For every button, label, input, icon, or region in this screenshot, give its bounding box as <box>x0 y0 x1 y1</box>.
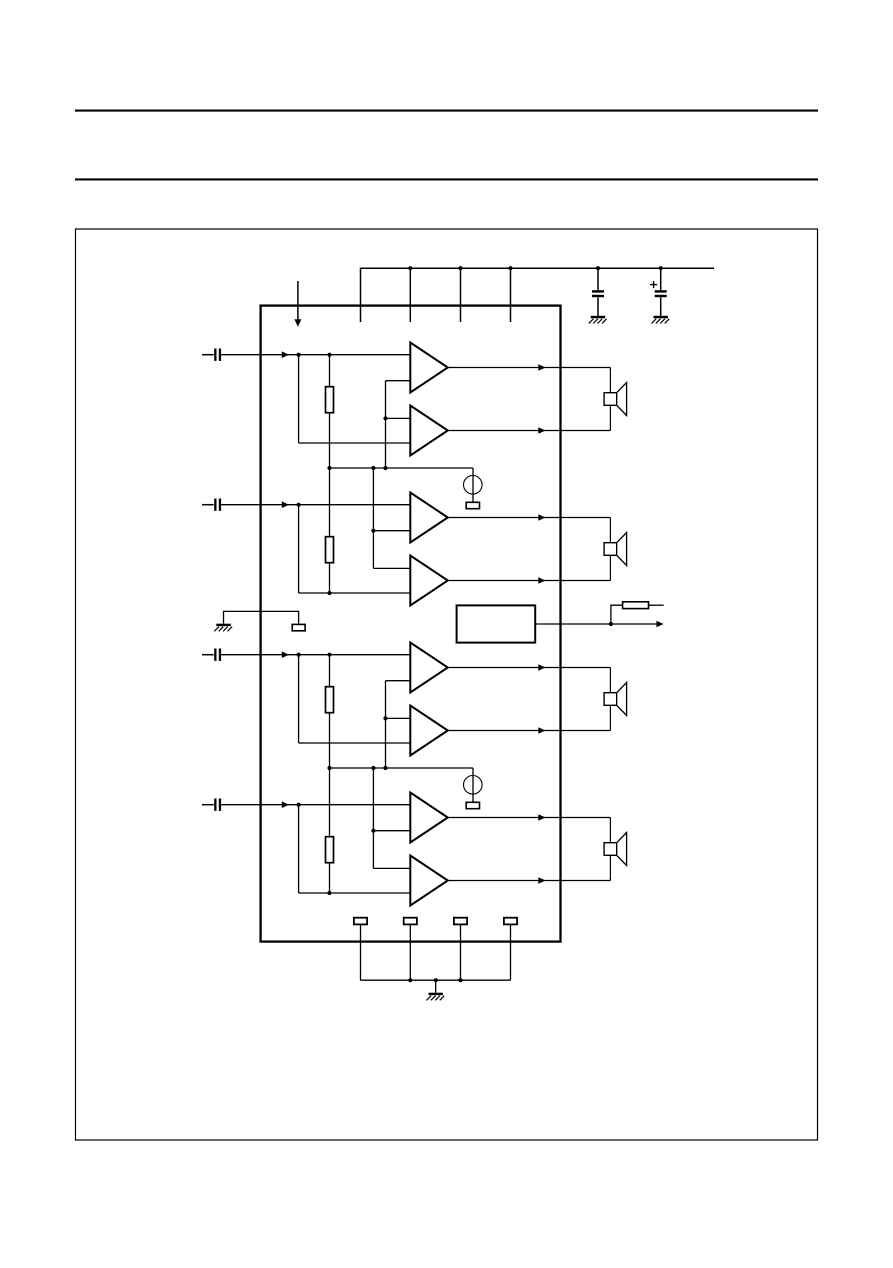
wire through resistor R3 <box>329 655 331 768</box>
op-amp A3 <box>410 493 448 543</box>
wire inverting input op4 <box>299 592 411 594</box>
arrowhead output op4 <box>538 577 545 584</box>
node interstage ch2 <box>371 529 375 533</box>
wire common reference ch3 <box>330 767 474 769</box>
arrowhead output op3 <box>538 514 545 521</box>
block mode select U1a <box>457 605 536 642</box>
pin pad ground tab 4 <box>504 918 517 925</box>
node interstage ch3 <box>383 716 387 720</box>
wire to reference source ch1 <box>472 468 474 502</box>
speaker LS2 <box>604 533 627 566</box>
arrowhead output op5 <box>538 664 545 671</box>
wire output op3 <box>448 517 611 519</box>
ground below C1 <box>589 316 607 324</box>
speaker LS1 <box>604 383 627 416</box>
op-amp A1 <box>410 343 448 393</box>
wire feedback drop ch4 <box>298 805 300 893</box>
wire ground tab 4 <box>510 924 512 980</box>
arrowhead input IN2 <box>282 501 289 508</box>
wire after pull-up resistor <box>649 604 664 606</box>
wire to speaker top ch1 <box>609 368 611 393</box>
node supply pin junction <box>508 266 512 270</box>
header rule bottom <box>75 178 818 180</box>
ground below C2 <box>652 316 670 324</box>
op-amp A7 <box>410 793 448 843</box>
op-amp A4 <box>410 556 448 606</box>
resistor R4 <box>326 837 334 863</box>
speaker LS4 <box>604 833 627 866</box>
node input 3 B <box>327 653 331 657</box>
node common ref 1 c <box>383 466 387 470</box>
current source reference ch3 <box>464 776 483 795</box>
wire ground tab 1 <box>360 924 362 980</box>
wire interstage ch3 <box>385 681 387 768</box>
node diagnostic branch <box>609 622 613 626</box>
arrowhead output op8 <box>538 877 545 884</box>
node common ref 1 b <box>371 466 375 470</box>
node interstage ch1 <box>383 416 387 420</box>
node common ref 3 a <box>327 766 331 770</box>
wire inverting input op2 <box>299 442 411 444</box>
wire through resistor R1 <box>329 355 331 468</box>
arrowhead output op2 <box>538 427 545 434</box>
wire to speaker bottom ch1 <box>609 405 611 430</box>
node C1 to rail <box>596 266 600 270</box>
wire output op7 <box>448 817 611 819</box>
capacitor input coupling CIN4 <box>202 799 221 811</box>
op-amp A2 <box>410 406 448 456</box>
node common ref 3 c <box>383 766 387 770</box>
ground signal ground <box>214 624 232 632</box>
wire supply pin <box>460 268 462 322</box>
arrowhead output op6 <box>538 727 545 734</box>
node input 2 A <box>297 503 301 507</box>
node ground bus a <box>408 978 412 982</box>
node common ref 1 a <box>327 466 331 470</box>
wire stub op7 inverting <box>373 830 410 832</box>
pin pad ground tab 3 <box>454 918 467 925</box>
wire input IN1 <box>221 354 410 356</box>
node input 3 A <box>297 653 301 657</box>
node resistor R2 bottom <box>327 591 331 595</box>
node input 4 A <box>297 803 301 807</box>
arrowhead input IN3 <box>282 651 289 658</box>
wire supply pin <box>510 268 512 322</box>
wire ground bus <box>361 979 511 981</box>
resistor R2 <box>326 537 334 563</box>
wire to speaker bottom ch2 <box>609 555 611 580</box>
wire signal ground to pin <box>224 611 299 624</box>
wire diagnostic pull-up branch <box>611 605 623 624</box>
wire to speaker bottom ch3 <box>609 705 611 730</box>
arrowhead input IN4 <box>282 801 289 808</box>
node ground stem <box>434 978 438 982</box>
pin pad ground tab 2 <box>404 918 417 925</box>
capacitor C1 decoupling <box>592 268 604 316</box>
wire feedback drop ch3 <box>298 655 300 743</box>
node input 1 A <box>297 353 301 357</box>
capacitor input coupling CIN2 <box>202 499 221 511</box>
wire supply rail VP <box>361 268 715 322</box>
wire stub op5 inverting <box>386 680 411 682</box>
wire to speaker top ch2 <box>609 518 611 543</box>
wire stub op2 noninverting <box>386 417 411 419</box>
pin pad reference ch3 <box>466 802 479 808</box>
node supply pin junction <box>458 266 462 270</box>
op-amp A6 <box>410 706 448 756</box>
wire output op8 <box>448 880 611 882</box>
wire inverting input op8 <box>299 892 411 894</box>
node C2 to rail <box>659 266 663 270</box>
wire from common ref to ch4 <box>372 768 374 868</box>
node supply pin junction <box>408 266 412 270</box>
resistor R pull-up diagnostic <box>623 602 649 609</box>
wire output op6 <box>448 730 611 732</box>
wire stub op6 noninverting <box>386 717 411 719</box>
arrowhead input IN1 <box>282 351 289 358</box>
node common ref 3 b <box>371 766 375 770</box>
wire to speaker top ch3 <box>609 668 611 693</box>
wire ground tab 2 <box>409 924 411 980</box>
wire diagnostic output <box>535 623 656 625</box>
wire common reference ch1 <box>330 467 474 469</box>
wire feedback drop ch1 <box>298 355 300 443</box>
IC block outline U1 <box>261 306 561 942</box>
wire output op2 <box>448 430 611 432</box>
resistor R1 <box>326 387 334 413</box>
arrowhead diagnostic output <box>656 621 663 628</box>
node ground bus b <box>458 978 462 982</box>
current source reference ch1 <box>464 476 483 495</box>
polarity plus sign C2 <box>650 281 657 288</box>
wire to speaker top ch4 <box>609 818 611 843</box>
speaker LS3 <box>604 683 627 716</box>
node resistor R4 bottom <box>327 891 331 895</box>
resistor R3 <box>326 687 334 713</box>
op-amp A5 <box>410 643 448 693</box>
wire ground tab 3 <box>460 924 462 980</box>
wire output op1 <box>448 367 611 369</box>
wire output op5 <box>448 667 611 669</box>
wire through resistor R4 <box>329 768 331 893</box>
wire to reference source ch3 <box>472 768 474 802</box>
wire feedback drop ch2 <box>298 505 300 593</box>
wire input IN3 <box>221 654 410 656</box>
node interstage ch4 <box>371 829 375 833</box>
arrowhead output op7 <box>538 814 545 821</box>
wire input IN4 <box>221 804 410 806</box>
pin pad reference ch1 <box>466 502 479 508</box>
wire stub op3 inverting <box>373 530 410 532</box>
wire stub op8 noninverting <box>373 867 410 869</box>
wire from common ref to ch2 <box>372 468 374 568</box>
pin pad signal ground <box>292 624 305 630</box>
arrowhead output op1 <box>538 364 545 371</box>
capacitor C2 electrolytic <box>655 268 667 316</box>
ground power ground <box>427 993 445 1001</box>
wire supply pin <box>409 268 411 322</box>
wire input IN2 <box>221 504 410 506</box>
wire stub op4 noninverting <box>373 567 410 569</box>
wire inverting input op6 <box>299 742 411 744</box>
node input 1 B <box>327 353 331 357</box>
arrowhead supply into IC <box>294 319 301 327</box>
wire through resistor R2 <box>329 468 331 593</box>
capacitor input coupling CIN1 <box>202 349 221 361</box>
wire stub op1 inverting <box>386 380 411 382</box>
op-amp A8 <box>410 856 448 906</box>
wire interstage ch1 <box>385 381 387 468</box>
wire supply current arrow <box>297 281 299 320</box>
header rule top <box>75 110 818 112</box>
capacitor input coupling CIN3 <box>202 649 221 661</box>
wire ground stem <box>435 980 437 993</box>
pin pad ground tab 1 <box>354 918 367 925</box>
figure frame <box>76 229 818 1140</box>
wire to speaker bottom ch4 <box>609 855 611 880</box>
wire output op4 <box>448 580 611 582</box>
